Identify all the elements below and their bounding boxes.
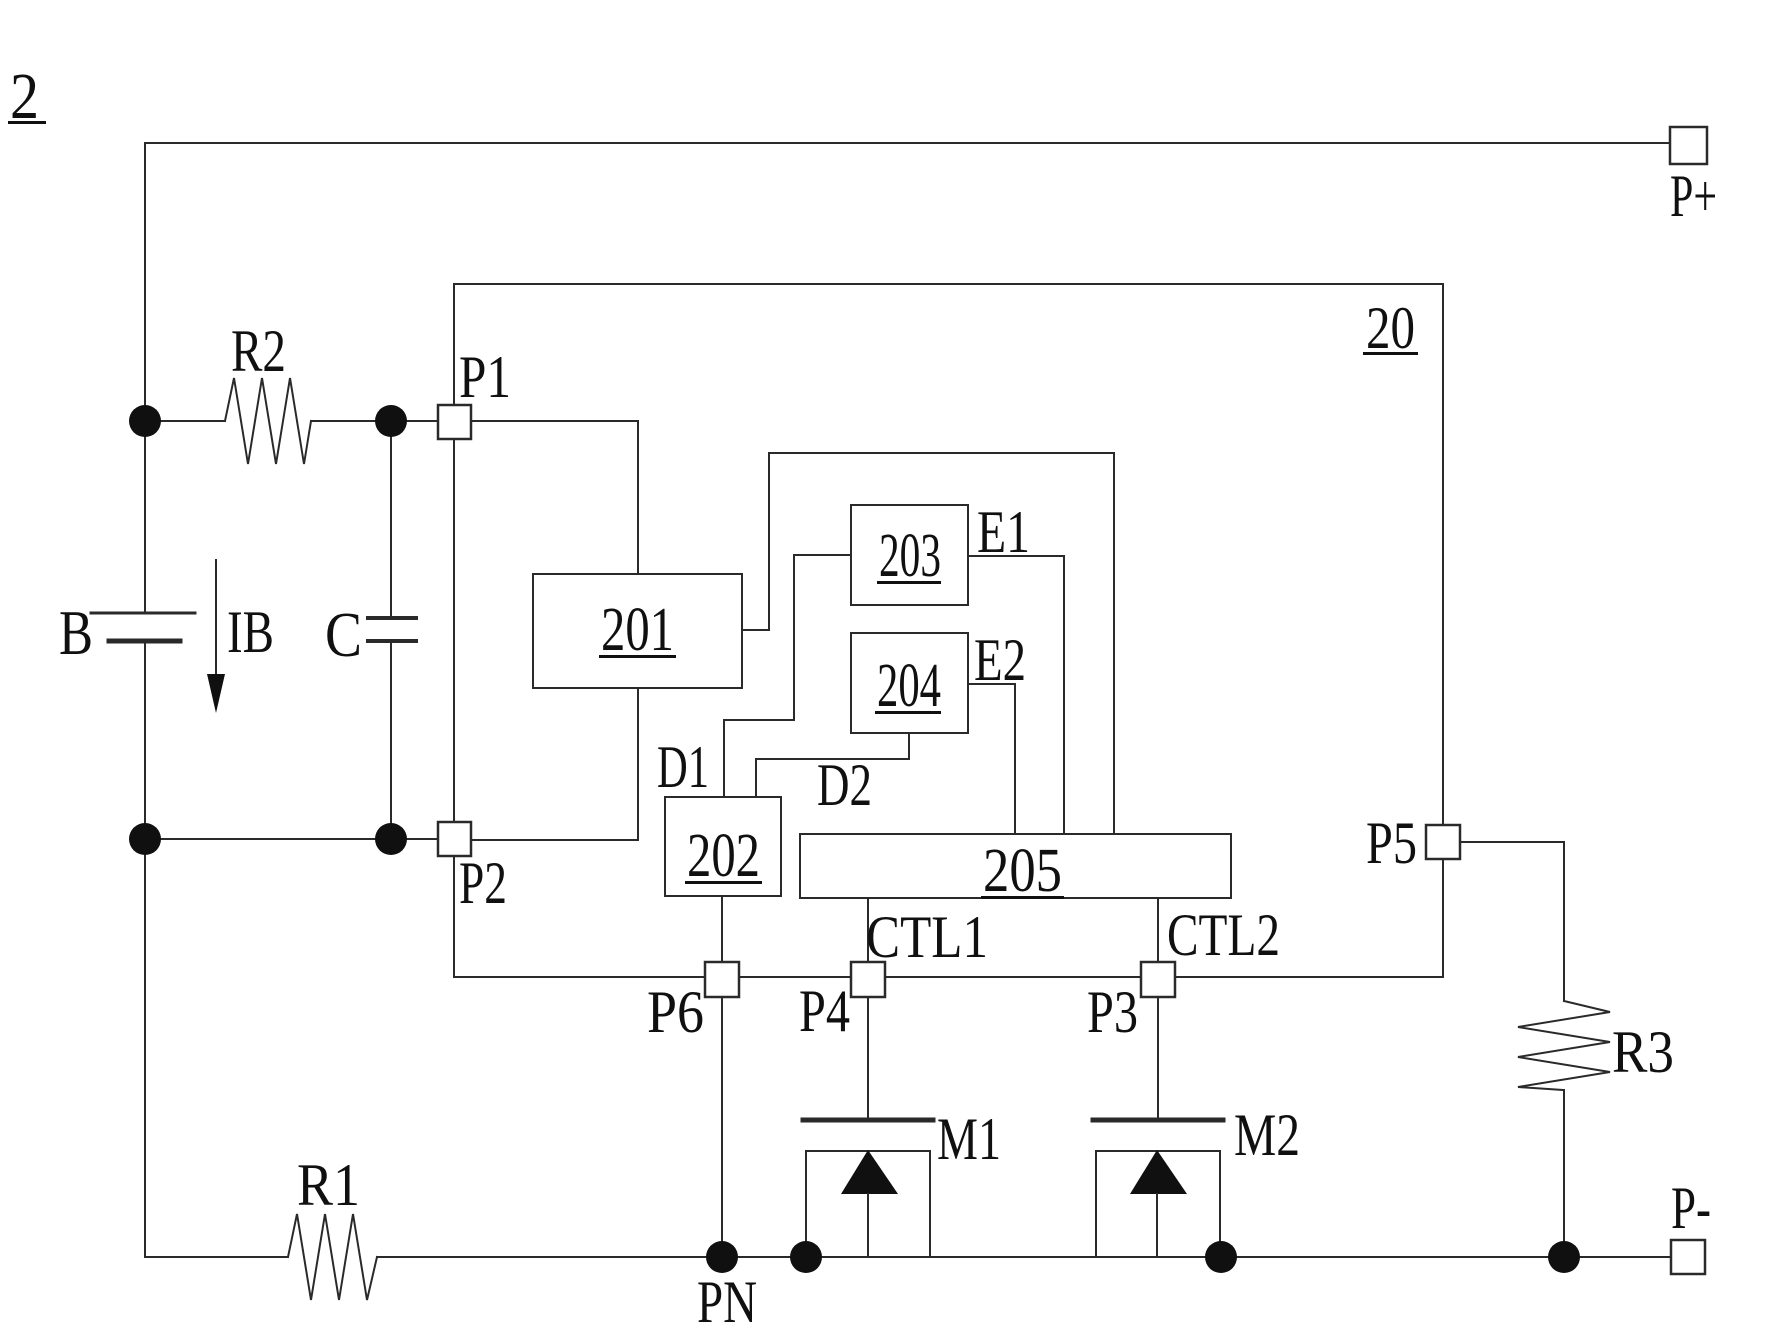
junction node at C bottom — [375, 823, 407, 855]
resistor R3 — [1518, 1001, 1610, 1090]
wire bottom rail — [145, 1256, 288, 1258]
svg-text:204: 204 — [877, 652, 941, 720]
wire block 201 output to 205 top — [742, 453, 1114, 834]
node PN — [706, 1241, 738, 1273]
svg-text:P4: P4 — [799, 978, 850, 1044]
junction node M2 source — [1205, 1241, 1237, 1273]
svg-text:C: C — [325, 599, 362, 670]
port P1 — [438, 405, 471, 439]
port P3 — [1141, 962, 1175, 997]
svg-text:P3: P3 — [1087, 979, 1138, 1045]
wire P2 row left: rail to P2 — [145, 838, 438, 840]
junction node at R2 left — [129, 405, 161, 437]
port P2 — [438, 822, 471, 856]
svg-text:M2: M2 — [1234, 1102, 1300, 1168]
port P4 — [851, 962, 885, 997]
wire block 201 bottom to P2 row — [637, 688, 639, 840]
current arrow IB — [215, 560, 217, 690]
block 202 — [665, 797, 781, 896]
svg-text:CTL1: CTL1 — [866, 904, 988, 970]
wire 202 bottom through P6 to PN — [721, 896, 723, 1257]
transistor M1 body arrow — [841, 1150, 898, 1194]
svg-text:CTL2: CTL2 — [1167, 902, 1280, 968]
junction node R3 bottom — [1548, 1241, 1580, 1273]
svg-text:B: B — [59, 597, 93, 668]
svg-text:205: 205 — [983, 837, 1062, 905]
svg-text:E2: E2 — [974, 627, 1026, 693]
svg-text:201: 201 — [601, 596, 674, 664]
battery B — [91, 612, 195, 615]
port P6 — [705, 962, 739, 997]
svg-text:E1: E1 — [977, 499, 1030, 565]
wire top rail to P+ — [145, 142, 1670, 144]
block 205 — [800, 834, 1231, 898]
svg-text:P6: P6 — [647, 979, 704, 1045]
svg-text:D2: D2 — [817, 752, 872, 818]
junction node M1 drain — [790, 1241, 822, 1273]
transistor M2 gate bar — [1093, 1118, 1223, 1123]
svg-text:M1: M1 — [937, 1106, 1001, 1172]
wire R2 row: node to P1 — [145, 420, 225, 422]
transistor M2 source tail — [1156, 1194, 1158, 1257]
svg-text:R1: R1 — [297, 1152, 360, 1218]
wire left rail lower — [144, 643, 146, 1257]
wire D2: 204 bottom to 202 top — [756, 733, 909, 797]
svg-text:202: 202 — [687, 822, 760, 890]
figure label 2 — [8, 60, 46, 133]
svg-text:P+: P+ — [1670, 163, 1717, 229]
svg-text:P1: P1 — [459, 344, 511, 410]
svg-text:IB: IB — [227, 599, 274, 665]
transistor M1 gate bar — [803, 1118, 933, 1123]
block 203 — [851, 505, 968, 605]
svg-text:P5: P5 — [1366, 810, 1417, 876]
port P5 — [1426, 825, 1460, 859]
svg-text:20: 20 — [1366, 295, 1415, 361]
port P+ — [1670, 127, 1707, 164]
wire P1 to block 201 top — [471, 420, 638, 422]
wire CTL2: 205 bottom through P3 to M2 gate — [1157, 898, 1159, 1117]
svg-text:PN: PN — [697, 1269, 757, 1327]
resistor R2 — [225, 378, 311, 464]
transistor M2 gate lead — [1157, 997, 1159, 1117]
svg-text:R3: R3 — [1612, 1019, 1674, 1085]
svg-text:P-: P- — [1671, 1175, 1711, 1241]
wire left rail upper — [144, 143, 146, 611]
transistor M2 channel bracket — [1096, 1151, 1220, 1257]
transistor M1 source tail — [867, 1194, 869, 1257]
port P- — [1671, 1240, 1705, 1274]
resistor R1 — [288, 1214, 377, 1300]
block 20 outline — [454, 284, 1443, 977]
junction node at R2 right / C top — [375, 405, 407, 437]
svg-text:D1: D1 — [657, 734, 709, 800]
svg-text:P2: P2 — [459, 850, 507, 916]
wire D1: 203 left to 202 top — [724, 555, 851, 797]
svg-text:203: 203 — [879, 522, 941, 590]
svg-text:R2: R2 — [231, 318, 286, 384]
junction node at rail / P2 row — [129, 823, 161, 855]
transistor M2 body arrow — [1130, 1150, 1187, 1194]
capacitor C — [390, 421, 392, 616]
wire E1: 203 right to 205 top — [968, 556, 1064, 834]
transistor M1 channel bracket — [806, 1151, 930, 1257]
wire E2: 204 right to 205 top — [968, 684, 1015, 834]
wire P5 to R3 top — [1460, 842, 1564, 1001]
block 204 — [851, 633, 968, 733]
block 201 — [533, 574, 742, 688]
wire CTL1: 205 bottom through P4 to M1 gate — [867, 898, 869, 1117]
transistor M1 gate lead — [867, 997, 869, 1117]
